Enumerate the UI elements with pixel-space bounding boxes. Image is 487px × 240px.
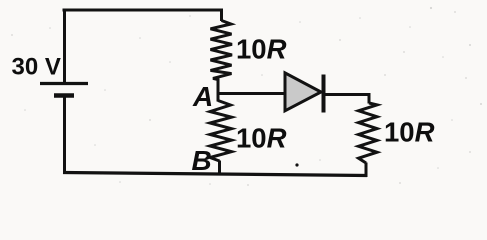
wire left vertical lower — [63, 96, 66, 175]
wire middle branch top stub — [220, 9, 223, 22]
battery V1 long plate — [40, 82, 88, 85]
wire left vertical upper — [63, 9, 66, 84]
svg-text:A: A — [192, 81, 213, 112]
background paper — [0, 0, 487, 190]
wire node B stub — [218, 161, 221, 175]
wire node A stub — [217, 79, 220, 102]
svg-text:B: B — [192, 145, 212, 176]
stray ink dot — [295, 163, 298, 166]
svg-text:10R: 10R — [384, 117, 435, 148]
battery V1 short plate — [54, 93, 74, 98]
resistor R3 10R (right zigzag) — [359, 103, 378, 163]
wire top horizontal — [63, 9, 224, 12]
wire diode to right branch — [325, 93, 370, 96]
svg-text:10R: 10R — [236, 123, 287, 154]
svg-text:10R: 10R — [236, 34, 287, 65]
resistor R1 10R (upper middle zigzag) — [211, 21, 233, 80]
wire right branch bottom stub — [365, 163, 368, 178]
wire node A to diode — [217, 92, 285, 95]
wire right branch top stub — [368, 93, 371, 104]
diode D1 triangle (anode) — [285, 73, 321, 111]
diode D1 cathode bar — [322, 75, 326, 113]
wire bottom horizontal — [63, 173, 367, 176]
svg-text:30 V: 30 V — [12, 54, 61, 81]
resistor R2 10R (lower middle zigzag) — [210, 101, 232, 162]
